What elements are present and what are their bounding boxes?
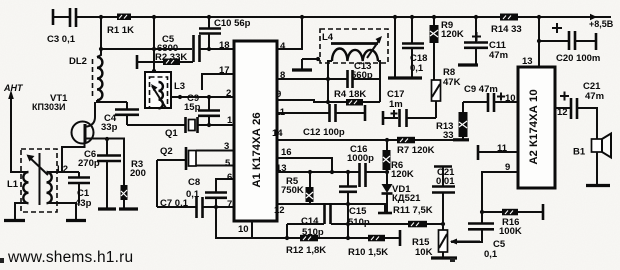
svg-text:B1: B1 — [573, 147, 586, 158]
svg-text:R10 1,5K: R10 1,5K — [348, 247, 388, 258]
svg-text:6: 6 — [227, 172, 232, 183]
svg-text:R2 33K: R2 33K — [155, 52, 187, 63]
svg-text:DL2: DL2 — [69, 56, 87, 67]
svg-text:47K: 47K — [443, 77, 461, 88]
resistor R11 — [408, 221, 427, 228]
svg-text:100K: 100K — [499, 226, 522, 237]
crystal Q1 — [186, 117, 198, 133]
resistor R3 — [123, 139, 125, 208]
ground — [394, 17, 396, 77]
wire bottom bus — [216, 207, 400, 238]
wire pin 14 / resistor R7 — [277, 139, 453, 141]
svg-text:C10 56p: C10 56p — [214, 18, 251, 29]
inductor L1 — [23, 172, 28, 203]
svg-text:R12 1,8K: R12 1,8K — [286, 245, 326, 256]
capacitor C17 — [382, 111, 385, 125]
wire pin 8 — [277, 78, 328, 80]
speaker B1 — [592, 139, 603, 152]
svg-text:L2: L2 — [57, 164, 68, 175]
diode VD1 — [382, 184, 393, 193]
capacitor C6 — [105, 137, 109, 141]
capacitor C1 — [78, 172, 80, 177]
svg-text:C12 100p: C12 100p — [303, 127, 345, 138]
svg-text:10K: 10K — [415, 247, 433, 258]
wire tank bottom leads — [15, 203, 29, 219]
svg-text:9: 9 — [276, 89, 281, 100]
capacitor C8 — [205, 193, 227, 198]
svg-text:33: 33 — [443, 130, 454, 141]
svg-text:16: 16 — [281, 147, 292, 158]
wire drain to C5 — [101, 48, 192, 50]
resistor R13 — [453, 102, 463, 140]
wire pin 9 — [277, 100, 328, 102]
svg-text:2: 2 — [226, 88, 231, 99]
ground — [98, 207, 116, 210]
capacitor C10 — [208, 17, 210, 49]
svg-text:11: 11 — [275, 107, 286, 118]
ground — [119, 207, 138, 210]
svg-text:www.shems.h1.ru: www.shems.h1.ru — [7, 249, 133, 266]
wire tank core and tuning arrow — [39, 153, 41, 205]
wire oscillator rail — [153, 17, 155, 72]
node top rail junctions — [99, 15, 103, 19]
svg-text:0,01: 0,01 — [436, 176, 455, 187]
wire tank top lead — [47, 171, 80, 173]
wire pin 11 — [477, 145, 480, 160]
svg-text:C3 0,1: C3 0,1 — [47, 34, 76, 45]
svg-text:18: 18 — [219, 40, 230, 51]
inductor L3 — [159, 82, 163, 108]
svg-text:9: 9 — [505, 162, 510, 173]
capacitor C9 47m — [463, 101, 487, 103]
node terminal — [399, 230, 402, 246]
ground — [458, 63, 478, 66]
capacitor C7 — [157, 206, 196, 208]
crystal Q2 — [157, 159, 186, 161]
transistor VT1 — [72, 122, 94, 144]
svg-text:0,1: 0,1 — [484, 249, 498, 260]
svg-text:120K: 120K — [391, 169, 414, 180]
capacitor C13 — [328, 78, 380, 80]
ground — [586, 184, 610, 187]
resistor R6 — [386, 140, 388, 150]
svg-text:510p: 510p — [348, 217, 370, 228]
capacitor C18 — [411, 17, 413, 77]
svg-text:10: 10 — [238, 224, 249, 235]
svg-text:0,1: 0,1 — [410, 63, 424, 74]
resistor R4 — [328, 101, 380, 103]
svg-text:12: 12 — [274, 205, 285, 216]
svg-text:750K: 750K — [281, 185, 304, 196]
svg-text:12: 12 — [557, 107, 568, 118]
resistor R9 — [433, 17, 435, 80]
ground pin 8 — [301, 59, 303, 69]
svg-text:200: 200 — [130, 168, 146, 179]
op-amp U1 IC A1 — [234, 41, 277, 221]
wire pin 16 — [277, 158, 332, 172]
svg-text:R11 7,5K: R11 7,5K — [393, 205, 433, 216]
svg-text:1: 1 — [227, 115, 233, 126]
inductor L2 — [47, 172, 52, 203]
wire pin 17 — [202, 74, 234, 90]
wire pin 6 — [216, 179, 234, 192]
wire pin 4 — [277, 17, 302, 49]
resistor R5 — [309, 172, 311, 204]
wire pin 10 — [251, 221, 253, 238]
svg-text:C15: C15 — [349, 206, 367, 217]
inductor DL2 — [97, 17, 101, 57]
svg-text:+8,5В: +8,5В — [589, 19, 614, 29]
svg-text:7: 7 — [227, 199, 232, 210]
resistor R12 — [300, 235, 318, 242]
wire pin 5 — [196, 165, 234, 167]
resistor R15 potentiometer — [442, 224, 444, 257]
svg-text:АНТ: АНТ — [3, 83, 24, 93]
svg-text:560p: 560p — [351, 70, 373, 81]
svg-text:R4 18K: R4 18K — [334, 89, 366, 100]
svg-text:120K: 120K — [441, 29, 464, 40]
capacitor C15 — [347, 172, 349, 186]
wire input tank box — [21, 149, 57, 212]
svg-text:10: 10 — [505, 93, 516, 104]
svg-text:КД521: КД521 — [392, 193, 421, 204]
svg-text:C7 0,1: C7 0,1 — [160, 198, 189, 209]
svg-text:R1 1K: R1 1K — [107, 25, 134, 36]
wire detector bus / capacitor C14 — [287, 223, 408, 225]
svg-text:3: 3 — [224, 141, 229, 152]
resistor R10 — [368, 235, 385, 242]
svg-text:1m: 1m — [389, 99, 403, 110]
wire riser — [286, 224, 288, 238]
wire rail left — [156, 160, 158, 207]
svg-text:КП303И: КП303И — [32, 102, 65, 112]
wire pin 12 — [277, 204, 385, 214]
svg-text:C8: C8 — [188, 177, 200, 188]
wire pin 3 — [196, 150, 234, 152]
inductor L4 — [320, 29, 388, 63]
svg-text:14: 14 — [272, 128, 283, 139]
capacitor C4 — [126, 102, 128, 125]
capacitor C9 — [208, 97, 210, 125]
svg-text:5: 5 — [225, 158, 231, 169]
ground — [4, 219, 25, 222]
svg-text:8: 8 — [280, 70, 285, 81]
inductor L3 shield box — [145, 72, 171, 108]
capacitor C20 — [538, 17, 540, 67]
svg-text:R7 120K: R7 120K — [397, 145, 435, 156]
capacitor C5 — [194, 35, 200, 62]
wire pin 13 / capacitor C16 — [277, 171, 387, 173]
svg-text:Q1: Q1 — [165, 128, 178, 139]
capacitor C21 — [555, 107, 570, 109]
svg-text:0,1: 0,1 — [186, 189, 200, 200]
svg-text:L1: L1 — [7, 179, 19, 190]
wire drain node — [97, 100, 127, 102]
wire stray scan marks — [450, 258, 455, 262]
svg-text:C9 47m: C9 47m — [464, 84, 498, 95]
capacitor C5 0,1 — [451, 212, 482, 242]
svg-text:4: 4 — [280, 41, 286, 52]
resistor R2 — [136, 55, 139, 69]
wire top supply rail — [53, 16, 611, 18]
svg-text:C14: C14 — [301, 216, 319, 227]
ground — [66, 219, 86, 222]
svg-text:13: 13 — [522, 56, 533, 67]
svg-text:C20 100m: C20 100m — [556, 53, 600, 64]
wire pin 9 / resistor R16 — [482, 172, 518, 212]
svg-text:R14 33: R14 33 — [491, 24, 522, 35]
svg-text:47m: 47m — [489, 50, 508, 61]
svg-text:270p: 270p — [78, 158, 100, 169]
svg-text:L3: L3 — [174, 81, 185, 92]
wire tank frame — [328, 61, 380, 102]
svg-text:А2 К174ХА 10: А2 К174ХА 10 — [528, 89, 540, 164]
svg-text:11: 11 — [497, 143, 508, 154]
wire pin 2 — [171, 96, 234, 98]
svg-text:Q2: Q2 — [160, 146, 173, 157]
op-amp U2 IC A2 — [518, 67, 555, 188]
svg-text:L4: L4 — [322, 32, 334, 43]
svg-text:13: 13 — [276, 163, 287, 174]
svg-text:15p: 15p — [184, 102, 201, 113]
resistor R1 — [117, 14, 131, 21]
wire pin 1 — [127, 124, 234, 126]
svg-text:47m: 47m — [585, 91, 604, 102]
svg-text:1000p: 1000p — [347, 153, 374, 164]
svg-text:43p: 43p — [75, 198, 92, 209]
resistor R14 — [500, 14, 518, 21]
capacitor C3 — [52, 9, 55, 25]
wire pin 11 / capacitor C12 — [277, 112, 365, 114]
capacitor C11 — [475, 17, 477, 64]
resistor R8 — [432, 80, 441, 101]
capacitor C21 0,01 — [434, 165, 452, 168]
svg-text:33p: 33p — [101, 122, 118, 133]
ground — [431, 256, 457, 259]
svg-text:А1 К174ХА 26: А1 К174ХА 26 — [251, 112, 263, 187]
